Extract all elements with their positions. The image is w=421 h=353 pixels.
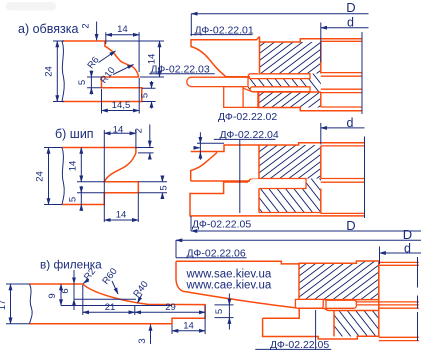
svg-text:17: 17 xyxy=(0,300,8,311)
svg-text:d: d xyxy=(347,15,354,29)
svg-text:d: d xyxy=(347,116,354,130)
svg-text:2: 2 xyxy=(134,128,145,133)
svg-text:D: D xyxy=(346,218,355,233)
svg-text:14: 14 xyxy=(147,54,158,65)
svg-text:29: 29 xyxy=(165,302,176,313)
svg-text:d: d xyxy=(404,242,411,256)
svg-text:14,5: 14,5 xyxy=(112,100,131,111)
svg-text:6: 6 xyxy=(60,288,71,293)
svg-text:9: 9 xyxy=(47,293,58,298)
svg-text:14: 14 xyxy=(117,24,128,35)
svg-text:14: 14 xyxy=(68,161,79,172)
svg-text:5: 5 xyxy=(140,93,151,98)
svg-text:5: 5 xyxy=(214,309,225,314)
svg-text:а) обвязка: а) обвязка xyxy=(18,22,78,36)
svg-text:ДФ-02.22.02: ДФ-02.22.02 xyxy=(218,111,277,123)
svg-text:14: 14 xyxy=(183,321,194,332)
svg-text:б) шип: б) шип xyxy=(55,127,94,141)
svg-text:5: 5 xyxy=(77,80,88,85)
svg-text:3: 3 xyxy=(137,338,148,343)
svg-text:D: D xyxy=(403,227,412,242)
svg-text:24: 24 xyxy=(44,66,55,77)
svg-text:5: 5 xyxy=(68,197,79,202)
svg-text:14: 14 xyxy=(116,210,127,221)
svg-text:21: 21 xyxy=(105,302,116,313)
svg-text:2: 2 xyxy=(81,23,92,28)
svg-text:ДФ-02.22.05: ДФ-02.22.05 xyxy=(192,219,251,231)
svg-text:14: 14 xyxy=(113,124,124,135)
svg-text:5: 5 xyxy=(159,185,170,190)
svg-text:24: 24 xyxy=(35,171,46,182)
svg-text:D: D xyxy=(346,0,355,15)
svg-text:www.cae.kiev.ua: www.cae.kiev.ua xyxy=(186,280,272,292)
